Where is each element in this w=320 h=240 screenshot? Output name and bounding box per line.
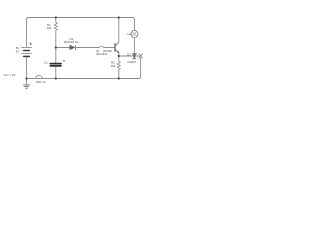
wire diode branch left: [56, 47, 70, 49]
wire emitter down: [118, 53, 120, 62]
svg-text:10k: 10k: [47, 26, 52, 30]
wire left rail upper: [26, 20, 28, 47]
wire right drop: [140, 58, 142, 77]
junction bottom C1: [55, 77, 57, 79]
ground: [23, 85, 29, 88]
junction lamp D2: [133, 55, 135, 57]
svg-text:SW1 1A: SW1 1A: [36, 80, 46, 84]
wire lamp to diode D2: [133, 38, 135, 54]
wire hop to base: [104, 47, 114, 49]
wire R2 to bottom rail: [118, 70, 120, 79]
wire bottom rail: [27, 77, 141, 79]
svg-text:9V: 9V: [16, 49, 19, 53]
svg-text:LA1: LA1: [127, 32, 132, 36]
wire top rail: [29, 17, 133, 19]
diode D2 triangle lower: [133, 57, 137, 59]
diode D1: [70, 45, 76, 50]
junction top collector: [118, 16, 120, 18]
svg-text:B1: B1: [16, 46, 20, 50]
wire R1 branch top: [55, 18, 57, 23]
wire top left corner: [27, 18, 29, 20]
resistor R2: [117, 62, 120, 70]
battery plus sign: [30, 43, 32, 45]
svg-text:10k: 10k: [111, 64, 116, 68]
junction bottom left: [25, 77, 27, 79]
diode D2 triangle upper: [133, 54, 137, 56]
wire hop: [99, 46, 104, 47]
junction R1 diode node: [55, 46, 57, 48]
svg-text:Vcc = 9V: Vcc = 9V: [4, 73, 16, 77]
terminal X1: [139, 54, 143, 58]
svg-text:C1: C1: [44, 60, 48, 64]
wire left rail lower: [26, 57, 28, 78]
wire capacitor to bottom rail: [55, 67, 57, 79]
wire collector up: [118, 18, 120, 43]
ground stub: [26, 79, 28, 86]
junction bottom R2: [118, 77, 120, 79]
lamp L1: [131, 30, 138, 37]
svg-text:1N4007: 1N4007: [127, 61, 136, 64]
capacitor plus mark: [63, 60, 65, 62]
wire lamp drop from top rail: [133, 20, 135, 31]
wire node to capacitor: [55, 48, 57, 63]
switch S1 hop on bottom rail: [35, 75, 42, 78]
transistor Q1: [115, 42, 119, 53]
wire R1 to node: [55, 31, 57, 48]
capacitor C1: [50, 64, 61, 66]
junction emitter node: [118, 55, 120, 57]
battery B1: [22, 48, 32, 57]
svg-text:1N4148 4V: 1N4148 4V: [64, 40, 79, 44]
resistor R1: [54, 23, 57, 31]
svg-text:2SC1815: 2SC1815: [96, 52, 108, 56]
junction top R1: [55, 16, 57, 18]
diode D2 cathode bar: [132, 53, 136, 55]
wire emitter node branch right: [119, 55, 139, 57]
wire diode to hop: [76, 47, 100, 49]
wire top right corner: [132, 18, 134, 20]
